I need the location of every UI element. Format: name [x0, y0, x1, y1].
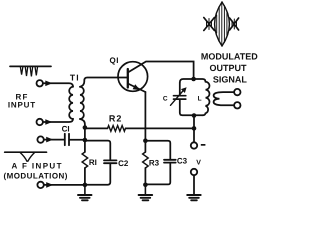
svg-text:RI: RI — [89, 158, 97, 167]
svg-text:R3: R3 — [149, 159, 160, 168]
svg-text:TI: TI — [70, 72, 80, 82]
svg-text:QI: QI — [109, 56, 118, 65]
svg-text:SIGNAL: SIGNAL — [213, 74, 248, 84]
svg-text:MODULATED: MODULATED — [201, 52, 258, 62]
svg-text:(MODULATION): (MODULATION) — [4, 171, 68, 180]
svg-text:CI: CI — [62, 124, 70, 133]
svg-text:C2: C2 — [118, 159, 129, 168]
svg-text:OUTPUT: OUTPUT — [210, 63, 248, 73]
svg-text:C: C — [163, 95, 168, 102]
svg-text:C3: C3 — [177, 156, 188, 165]
svg-text:V: V — [196, 160, 201, 167]
svg-text:R2: R2 — [109, 114, 123, 124]
svg-text:A F INPUT: A F INPUT — [11, 162, 62, 171]
svg-text:INPUT: INPUT — [8, 101, 36, 110]
svg-text:L: L — [198, 96, 202, 103]
